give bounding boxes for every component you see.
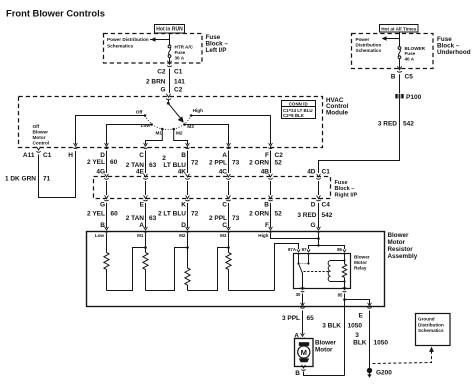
arrow to power distribution right bbox=[382, 36, 400, 40]
wire motor B to ground junction bbox=[304, 372, 345, 376]
svg-text:D: D bbox=[311, 201, 316, 208]
svg-text:2 LT BLU: 2 LT BLU bbox=[158, 210, 186, 217]
svg-text:High: High bbox=[258, 233, 268, 238]
svg-text:C1: C1 bbox=[174, 68, 183, 75]
label 2 ORN 52 (lower) bbox=[249, 210, 282, 217]
contact Low bbox=[150, 123, 153, 126]
svg-text:BLK: BLK bbox=[353, 340, 367, 347]
tag Hot in RUN bbox=[155, 25, 185, 34]
svg-text:52: 52 bbox=[275, 160, 283, 167]
connector column 5 fuse block top bbox=[269, 174, 273, 177]
svg-text:4B: 4B bbox=[261, 168, 270, 175]
wire column 6 through fuse block bbox=[318, 181, 320, 195]
svg-text:C2: C2 bbox=[275, 152, 284, 159]
svg-text:63: 63 bbox=[149, 162, 157, 169]
relay pin 30 bbox=[301, 287, 304, 290]
svg-text:2 TAN: 2 TAN bbox=[126, 215, 145, 222]
wire column 5 fuse block to resistor assembly bbox=[270, 203, 272, 228]
connector A11 C1 bbox=[37, 147, 41, 150]
wire rail M3 to chain end bbox=[229, 290, 275, 292]
wire feed to relay 87 bbox=[309, 246, 319, 250]
wire 3 PPL 65 to motor bbox=[302, 311, 304, 335]
blower motor symbol bbox=[298, 342, 310, 362]
terminal 4D and C1 bbox=[307, 168, 330, 175]
label 2 YEL 60 (lower) bbox=[87, 210, 118, 217]
svg-text:Right I/P: Right I/P bbox=[335, 192, 358, 198]
svg-text:Schematics: Schematics bbox=[418, 328, 444, 333]
svg-text:2 BRN: 2 BRN bbox=[146, 78, 166, 85]
wire fuse to connector C2/C1 bbox=[169, 58, 171, 64]
svg-text:B: B bbox=[264, 201, 269, 208]
wire column 3 through fuse block bbox=[187, 181, 189, 195]
svg-text:Blower: Blower bbox=[33, 129, 49, 134]
blower motor box bbox=[295, 339, 314, 367]
blower motor resistor assembly box bbox=[87, 232, 385, 307]
svg-text:2 ORN: 2 ORN bbox=[249, 160, 269, 167]
connector column 1 resistor assembly top bbox=[105, 227, 109, 230]
svg-text:Power: Power bbox=[356, 37, 370, 42]
svg-text:Blower: Blower bbox=[354, 254, 370, 259]
wire M2 to pin B bbox=[174, 129, 188, 145]
svg-text:D: D bbox=[100, 152, 105, 159]
fuse BLOWER 40A bbox=[398, 47, 401, 59]
svg-text:B: B bbox=[391, 74, 396, 81]
wire column 5 HVAC to fuse block bbox=[270, 151, 272, 174]
svg-text:87A: 87A bbox=[288, 247, 297, 252]
svg-text:HTR A/C: HTR A/C bbox=[175, 45, 194, 50]
relay contact 87 leg bbox=[308, 255, 310, 264]
svg-text:C1: C1 bbox=[322, 168, 331, 175]
blower switch pivot bbox=[167, 100, 169, 104]
wire 2 BRN 141 bbox=[169, 69, 171, 91]
connector column 1 fuse block bottom bbox=[105, 195, 109, 198]
svg-text:141: 141 bbox=[174, 78, 185, 85]
svg-text:C2: C2 bbox=[174, 86, 183, 93]
wire 1 DK GRN 71 loop to pin H bbox=[39, 151, 76, 198]
svg-text:Off: Off bbox=[136, 109, 143, 114]
HVAC control module box bbox=[19, 97, 323, 148]
pin B blower motor bbox=[302, 365, 306, 368]
label Fuse Block - Left I/P bbox=[206, 34, 229, 54]
label 2 PPL 73 (upper) bbox=[209, 160, 240, 167]
svg-text:72: 72 bbox=[191, 160, 199, 167]
svg-text:C: C bbox=[222, 222, 227, 229]
svg-text:M1: M1 bbox=[155, 130, 162, 135]
svg-text:Schematics: Schematics bbox=[356, 48, 382, 53]
svg-text:3 RED: 3 RED bbox=[378, 120, 397, 127]
svg-text:B: B bbox=[100, 222, 105, 229]
resistor R-M3 leg bbox=[228, 233, 230, 253]
svg-text:Module: Module bbox=[326, 110, 349, 117]
wire rail low to M1 bbox=[107, 248, 146, 291]
svg-text:1050: 1050 bbox=[348, 323, 363, 330]
svg-text:63: 63 bbox=[149, 215, 157, 222]
terminal D and C4 bbox=[311, 201, 330, 208]
svg-text:71: 71 bbox=[43, 175, 51, 182]
fuse block left I/P box bbox=[104, 34, 203, 64]
wire column 4 HVAC to fuse block bbox=[228, 151, 230, 174]
svg-text:Resistor: Resistor bbox=[388, 246, 414, 253]
label 2 BRN 141 bbox=[146, 78, 185, 85]
label Off Blower Motor Control bbox=[33, 124, 50, 146]
svg-text:Distribution: Distribution bbox=[356, 42, 382, 47]
relay throw dotted bbox=[301, 263, 308, 265]
wire column 1 HVAC to fuse block bbox=[106, 151, 108, 174]
svg-text:C5: C5 bbox=[405, 74, 414, 81]
relay armature bbox=[299, 264, 303, 289]
svg-text:E: E bbox=[140, 201, 145, 208]
label Power Distribution Schematics (right) bbox=[356, 37, 382, 53]
connector column 6 fuse block bottom bbox=[317, 195, 321, 198]
wire column 2 through fuse block bbox=[145, 181, 147, 195]
connector column 2 fuse block bottom bbox=[144, 195, 148, 198]
resistor R-low leg bbox=[106, 233, 108, 253]
label Blower Motor Resistor Assembly bbox=[388, 232, 418, 260]
wire relay 85 to ground node bbox=[344, 294, 346, 300]
contact M3 bbox=[183, 123, 186, 126]
svg-text:Motor: Motor bbox=[33, 135, 46, 140]
connector at left fuse box edge bbox=[167, 61, 171, 65]
wire rail M1 to M2 bbox=[146, 248, 188, 291]
label Fuse Block - Right I/P bbox=[335, 180, 358, 198]
svg-text:P100: P100 bbox=[406, 94, 422, 101]
wire column 6 fuse block to resistor assembly bbox=[318, 203, 320, 228]
svg-text:C2=8 BLK: C2=8 BLK bbox=[283, 113, 305, 118]
node M2 tap bbox=[186, 246, 189, 249]
label 2 LT BLU 72 (upper) bbox=[162, 155, 198, 169]
svg-text:40 A: 40 A bbox=[405, 57, 415, 62]
svg-text:Left I/P: Left I/P bbox=[206, 47, 227, 54]
connector column 4 fuse block top bbox=[227, 174, 231, 177]
svg-text:65: 65 bbox=[307, 315, 315, 322]
connector label C2 | C1 bbox=[157, 68, 183, 75]
pin A blower motor bbox=[301, 333, 305, 336]
svg-text:4K: 4K bbox=[178, 168, 187, 175]
svg-text:60: 60 bbox=[110, 159, 118, 166]
fuse block underhood box bbox=[352, 34, 434, 69]
svg-text:Front Blower Controls: Front Blower Controls bbox=[6, 8, 105, 19]
svg-text:Off: Off bbox=[33, 124, 40, 129]
svg-text:H: H bbox=[68, 152, 73, 159]
svg-text:73: 73 bbox=[232, 160, 240, 167]
CONN ID table bbox=[282, 101, 316, 119]
label Blower Motor bbox=[315, 340, 337, 354]
fuse block right I/P box bbox=[94, 177, 331, 199]
resistor R-M1 leg bbox=[145, 233, 147, 253]
node ground junction bbox=[343, 298, 346, 301]
resistor R-M2 leg bbox=[187, 233, 189, 268]
wire Low to pin D bbox=[107, 125, 152, 145]
label 3 BLK 1050 (ground) bbox=[353, 332, 388, 346]
svg-text:G: G bbox=[100, 201, 105, 208]
svg-text:C1=24 LT BLU: C1=24 LT BLU bbox=[283, 108, 313, 113]
svg-text:D: D bbox=[181, 222, 186, 229]
svg-text:E: E bbox=[359, 313, 364, 320]
svg-text:C2: C2 bbox=[157, 68, 166, 75]
contact Off bbox=[144, 114, 147, 117]
svg-text:542: 542 bbox=[403, 120, 414, 127]
tag Hot at All Times bbox=[380, 25, 419, 33]
svg-text:M: M bbox=[301, 348, 307, 357]
svg-text:K: K bbox=[181, 201, 186, 208]
wire column 1 fuse block to resistor assembly bbox=[106, 203, 108, 228]
svg-text:542: 542 bbox=[322, 212, 333, 219]
wire column 3 fuse block to resistor assembly bbox=[187, 203, 189, 228]
svg-text:High: High bbox=[193, 108, 204, 113]
svg-text:M2: M2 bbox=[176, 130, 183, 135]
node M3 tap bbox=[227, 246, 230, 249]
label 3 BLK 1050 (motor return) bbox=[322, 323, 362, 330]
relay coil parallel resistor bbox=[344, 261, 346, 265]
label Power Distribution Schematics (left) bbox=[107, 37, 149, 49]
connector column 5 fuse block bottom bbox=[269, 195, 273, 198]
svg-text:C1: C1 bbox=[43, 152, 52, 159]
connector column 6 fuse block top bbox=[317, 174, 321, 177]
svg-text:Hot at All Times: Hot at All Times bbox=[381, 27, 417, 32]
svg-text:Fuse: Fuse bbox=[335, 180, 348, 186]
splice P100 bbox=[395, 94, 403, 98]
svg-text:C4: C4 bbox=[322, 201, 331, 208]
svg-text:M2: M2 bbox=[179, 233, 186, 238]
svg-text:Blower: Blower bbox=[315, 340, 337, 347]
node ORN tee on RED feed bbox=[317, 237, 320, 240]
svg-text:G: G bbox=[310, 222, 315, 229]
svg-text:73: 73 bbox=[232, 215, 240, 222]
label Ground Distribution Schematics bbox=[418, 317, 444, 334]
wire High leg to RED node bbox=[271, 233, 319, 239]
wire fuse to box edge bbox=[399, 59, 401, 69]
connector column 1 fuse block top bbox=[105, 174, 109, 177]
svg-text:A11: A11 bbox=[23, 152, 35, 159]
label Fuse Block - Underhood bbox=[437, 36, 471, 56]
node M1 tap bbox=[144, 246, 147, 249]
svg-text:30: 30 bbox=[296, 292, 301, 297]
wire column 1 through fuse block bbox=[106, 181, 108, 195]
svg-text:3 BLK: 3 BLK bbox=[322, 323, 341, 330]
wire 3 RED feed into assembly bbox=[318, 233, 320, 246]
relay actuation dashed link bbox=[304, 271, 331, 273]
svg-text:87: 87 bbox=[302, 247, 307, 252]
label HVAC Control Module bbox=[326, 97, 349, 117]
label 3 RED 542 bbox=[378, 120, 414, 127]
svg-text:Underhood: Underhood bbox=[437, 49, 471, 56]
contact High bbox=[190, 114, 193, 117]
wire M1 to pin C bbox=[146, 129, 163, 145]
svg-text:F: F bbox=[265, 222, 269, 229]
label Blower Motor Relay bbox=[354, 254, 370, 270]
svg-text:Hot in RUN: Hot in RUN bbox=[156, 27, 183, 33]
label 2 PPL 73 (lower) bbox=[209, 215, 240, 222]
svg-text:4C: 4C bbox=[219, 168, 228, 175]
svg-text:30 A: 30 A bbox=[175, 55, 185, 60]
connector column 2 resistor assembly top bbox=[144, 227, 148, 230]
svg-text:B: B bbox=[295, 370, 300, 377]
svg-text:1050: 1050 bbox=[374, 340, 389, 347]
svg-text:G: G bbox=[160, 86, 165, 93]
wire relay 30 out of assembly bbox=[302, 294, 304, 305]
label BLOWER Fuse 40 A bbox=[405, 46, 426, 62]
svg-text:Block –: Block – bbox=[335, 186, 355, 192]
svg-text:2 ORN: 2 ORN bbox=[249, 210, 269, 217]
contact M1 bbox=[161, 128, 164, 131]
label 3 PPL 65 bbox=[282, 315, 314, 322]
wire column 2 fuse block to resistor assembly bbox=[145, 203, 147, 228]
svg-text:Fuse: Fuse bbox=[405, 51, 416, 56]
fuse HTR A/C 30A bbox=[168, 45, 171, 57]
svg-text:Fuse: Fuse bbox=[175, 50, 186, 55]
svg-text:Ground: Ground bbox=[418, 317, 435, 322]
wire tag to blower fuse bbox=[399, 32, 401, 47]
svg-text:BLOWER: BLOWER bbox=[405, 46, 426, 51]
relay coil bbox=[344, 255, 346, 261]
svg-text:4G: 4G bbox=[96, 168, 105, 175]
svg-text:M1: M1 bbox=[137, 233, 144, 238]
wire tag to fuse bbox=[169, 33, 171, 45]
svg-text:Motor: Motor bbox=[388, 239, 406, 246]
wire column 5 through fuse block bbox=[270, 181, 272, 195]
connector column 4 fuse block bottom bbox=[227, 195, 231, 198]
wire column 2 HVAC to fuse block bbox=[145, 151, 147, 174]
label 1 DK GRN 71 bbox=[5, 175, 51, 182]
blower switch arm bbox=[168, 103, 184, 122]
svg-text:Relay: Relay bbox=[354, 265, 367, 270]
connector column 6 resistor assembly top bbox=[317, 227, 321, 230]
contact M2 bbox=[172, 128, 175, 131]
blower motor relay box bbox=[294, 254, 351, 289]
connector column 3 fuse block bottom bbox=[186, 195, 190, 198]
ground distribution schematics box bbox=[416, 314, 451, 346]
wire chain end to relay 87A bbox=[275, 244, 299, 291]
svg-text:C: C bbox=[139, 152, 144, 159]
svg-text:85: 85 bbox=[338, 292, 343, 297]
relay pin 85 bbox=[343, 287, 346, 290]
svg-text:60: 60 bbox=[111, 210, 119, 217]
relay pin 87 bbox=[307, 249, 310, 252]
svg-text:Power Distribution: Power Distribution bbox=[107, 37, 149, 42]
label 2 LT BLU 72 (lower) bbox=[158, 210, 199, 217]
svg-text:2 YEL: 2 YEL bbox=[87, 210, 105, 217]
wire Off to pin H bbox=[76, 116, 146, 145]
svg-text:CONN ID: CONN ID bbox=[289, 101, 309, 106]
connector column 3 fuse block top bbox=[186, 174, 190, 177]
svg-text:86: 86 bbox=[337, 247, 342, 252]
svg-text:Blower: Blower bbox=[388, 232, 410, 239]
wire rail M2 to M3 bbox=[188, 248, 229, 291]
connector column 4 resistor assembly top bbox=[227, 227, 231, 230]
label 2 TAN 63 (upper) bbox=[126, 162, 157, 169]
ground G200 bbox=[367, 368, 372, 378]
svg-text:A: A bbox=[222, 152, 227, 159]
wire column 3 HVAC to fuse block bbox=[187, 151, 189, 174]
svg-text:4D: 4D bbox=[307, 168, 316, 175]
wire M3 to pin A bbox=[185, 125, 229, 145]
connector G C2 into HVAC module bbox=[169, 88, 171, 93]
svg-text:2 PPL: 2 PPL bbox=[209, 160, 227, 167]
svg-text:G200: G200 bbox=[376, 369, 392, 376]
svg-text:Control: Control bbox=[33, 140, 50, 145]
svg-text:Schematics: Schematics bbox=[107, 44, 133, 49]
relay pin 87A bbox=[297, 249, 300, 252]
svg-text:B: B bbox=[181, 152, 186, 159]
label 2 TAN 63 (lower) bbox=[126, 215, 157, 222]
svg-text:Low: Low bbox=[141, 123, 151, 128]
wire High to pin F bbox=[191, 116, 270, 145]
svg-text:Assembly: Assembly bbox=[388, 253, 418, 260]
svg-text:2 YEL: 2 YEL bbox=[87, 159, 105, 166]
svg-text:4E: 4E bbox=[136, 168, 145, 175]
wire pin E to G200 bbox=[369, 311, 371, 369]
wire junction to pin E bbox=[345, 300, 370, 305]
connector column 2 fuse block top bbox=[144, 174, 148, 177]
svg-text:Distribution: Distribution bbox=[418, 322, 444, 327]
svg-text:2 PPL: 2 PPL bbox=[209, 215, 227, 222]
wire feed to relay 86 bbox=[319, 246, 345, 250]
wire column 4 fuse block to resistor assembly bbox=[228, 203, 230, 228]
connector label G | C2 bbox=[160, 86, 182, 93]
svg-text:C: C bbox=[222, 201, 227, 208]
svg-text:3: 3 bbox=[355, 332, 359, 339]
wire column 4 through fuse block bbox=[228, 181, 230, 195]
label HTR A/C Fuse 30 A bbox=[175, 45, 194, 61]
svg-text:3 PPL: 3 PPL bbox=[282, 315, 300, 322]
connector B C5 bbox=[397, 66, 401, 70]
connector column 5 resistor assembly top bbox=[269, 227, 273, 230]
svg-text:M3: M3 bbox=[220, 233, 227, 238]
dashed reference to ground distribution bbox=[373, 347, 434, 364]
label 2 YEL 60 (upper) bbox=[87, 159, 118, 166]
svg-text:A: A bbox=[139, 222, 144, 229]
node RED split bbox=[317, 244, 319, 246]
connector column 3 resistor assembly top bbox=[186, 227, 190, 230]
label 2 ORN 52 (upper) bbox=[249, 160, 282, 167]
svg-text:1 DK GRN: 1 DK GRN bbox=[5, 175, 36, 182]
svg-text:72: 72 bbox=[191, 210, 199, 217]
wire 3 RED 542 from P100 to 4D C1 bbox=[319, 98, 400, 173]
relay contact 87A leg bbox=[298, 255, 300, 264]
svg-text:Motor: Motor bbox=[354, 260, 367, 265]
arrow to power distribution bbox=[150, 37, 170, 41]
label 3 RED 542 (lower) bbox=[297, 212, 332, 219]
relay pin 86 bbox=[343, 249, 346, 252]
switch contact arc bbox=[145, 116, 191, 130]
svg-text:F: F bbox=[265, 152, 269, 159]
svg-text:3 RED: 3 RED bbox=[297, 212, 316, 219]
wire C5 to P100 bbox=[399, 74, 401, 93]
wire junction down to motor return bbox=[344, 300, 346, 376]
svg-text:Motor: Motor bbox=[315, 347, 333, 354]
svg-text:52: 52 bbox=[275, 210, 283, 217]
svg-text:Low: Low bbox=[95, 233, 105, 238]
